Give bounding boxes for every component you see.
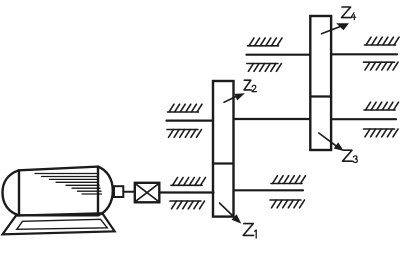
motor base outer — [3, 213, 115, 234]
coupling X diagonals — [136, 184, 158, 201]
gear block Z4 (upper) / Z3 (lower) outline — [310, 16, 331, 150]
arrowhead Z1 — [232, 214, 242, 223]
gear mesh division line between Z4 and Z3 — [310, 95, 331, 97]
motor shaft stub — [114, 186, 123, 197]
bearing: shaft II right, upper ground — [364, 102, 399, 110]
shaft II right segment — [331, 118, 396, 120]
shaft I right segment (gear Z1 to bearing) — [235, 189, 304, 191]
motor base inner line — [17, 219, 108, 229]
arrow to gear Z4 — [322, 26, 342, 34]
arrowhead Z2 — [235, 93, 245, 100]
gear block Z2 (upper) / Z1 (lower) outline — [213, 81, 234, 217]
bearing: shaft I right, lower ground — [270, 200, 305, 208]
arrowhead Z4 — [336, 23, 349, 30]
label Z1 — [243, 224, 253, 236]
motor M body — [19, 167, 98, 216]
bearing: shaft II right, lower ground — [364, 129, 399, 137]
shaft II left segment — [167, 119, 214, 121]
arrowhead Z3 — [334, 142, 344, 151]
coupling box — [135, 183, 160, 203]
label Z2 — [244, 80, 251, 90]
bearing: shaft III left, upper ground — [248, 38, 283, 46]
motor shading lines — [35, 174, 102, 195]
arrow to gear Z1 — [220, 203, 235, 217]
bearing: shaft I left, lower ground — [170, 201, 205, 209]
bearing: shaft III right, lower ground — [364, 62, 399, 70]
label Z4 — [342, 7, 352, 18]
shaft III right segment — [331, 53, 397, 55]
motor right end cap — [98, 167, 113, 216]
shaft III left segment — [247, 54, 311, 56]
arrow to gear Z3 — [319, 133, 336, 146]
shaft II middle segment (gear Z2 to gear Z3) — [234, 118, 310, 120]
shaft I left segment (coupling to gear Z1) — [159, 191, 213, 193]
bearing: shaft I left, upper ground — [171, 178, 206, 186]
motor left end cap — [3, 170, 20, 215]
bearing: shaft III left, lower ground — [247, 64, 282, 72]
bearing: shaft II left, lower ground — [167, 130, 202, 138]
label Z3 — [343, 150, 353, 161]
gear mesh division line between Z2 and Z1 — [213, 162, 234, 164]
bearing: shaft II left, upper ground — [168, 104, 203, 112]
wire: stub to coupling shaft — [123, 191, 135, 193]
bearing: shaft III right, upper ground — [365, 37, 400, 45]
arrow to gear Z2 — [224, 96, 237, 102]
bearing: shaft I right, upper ground — [271, 176, 306, 184]
